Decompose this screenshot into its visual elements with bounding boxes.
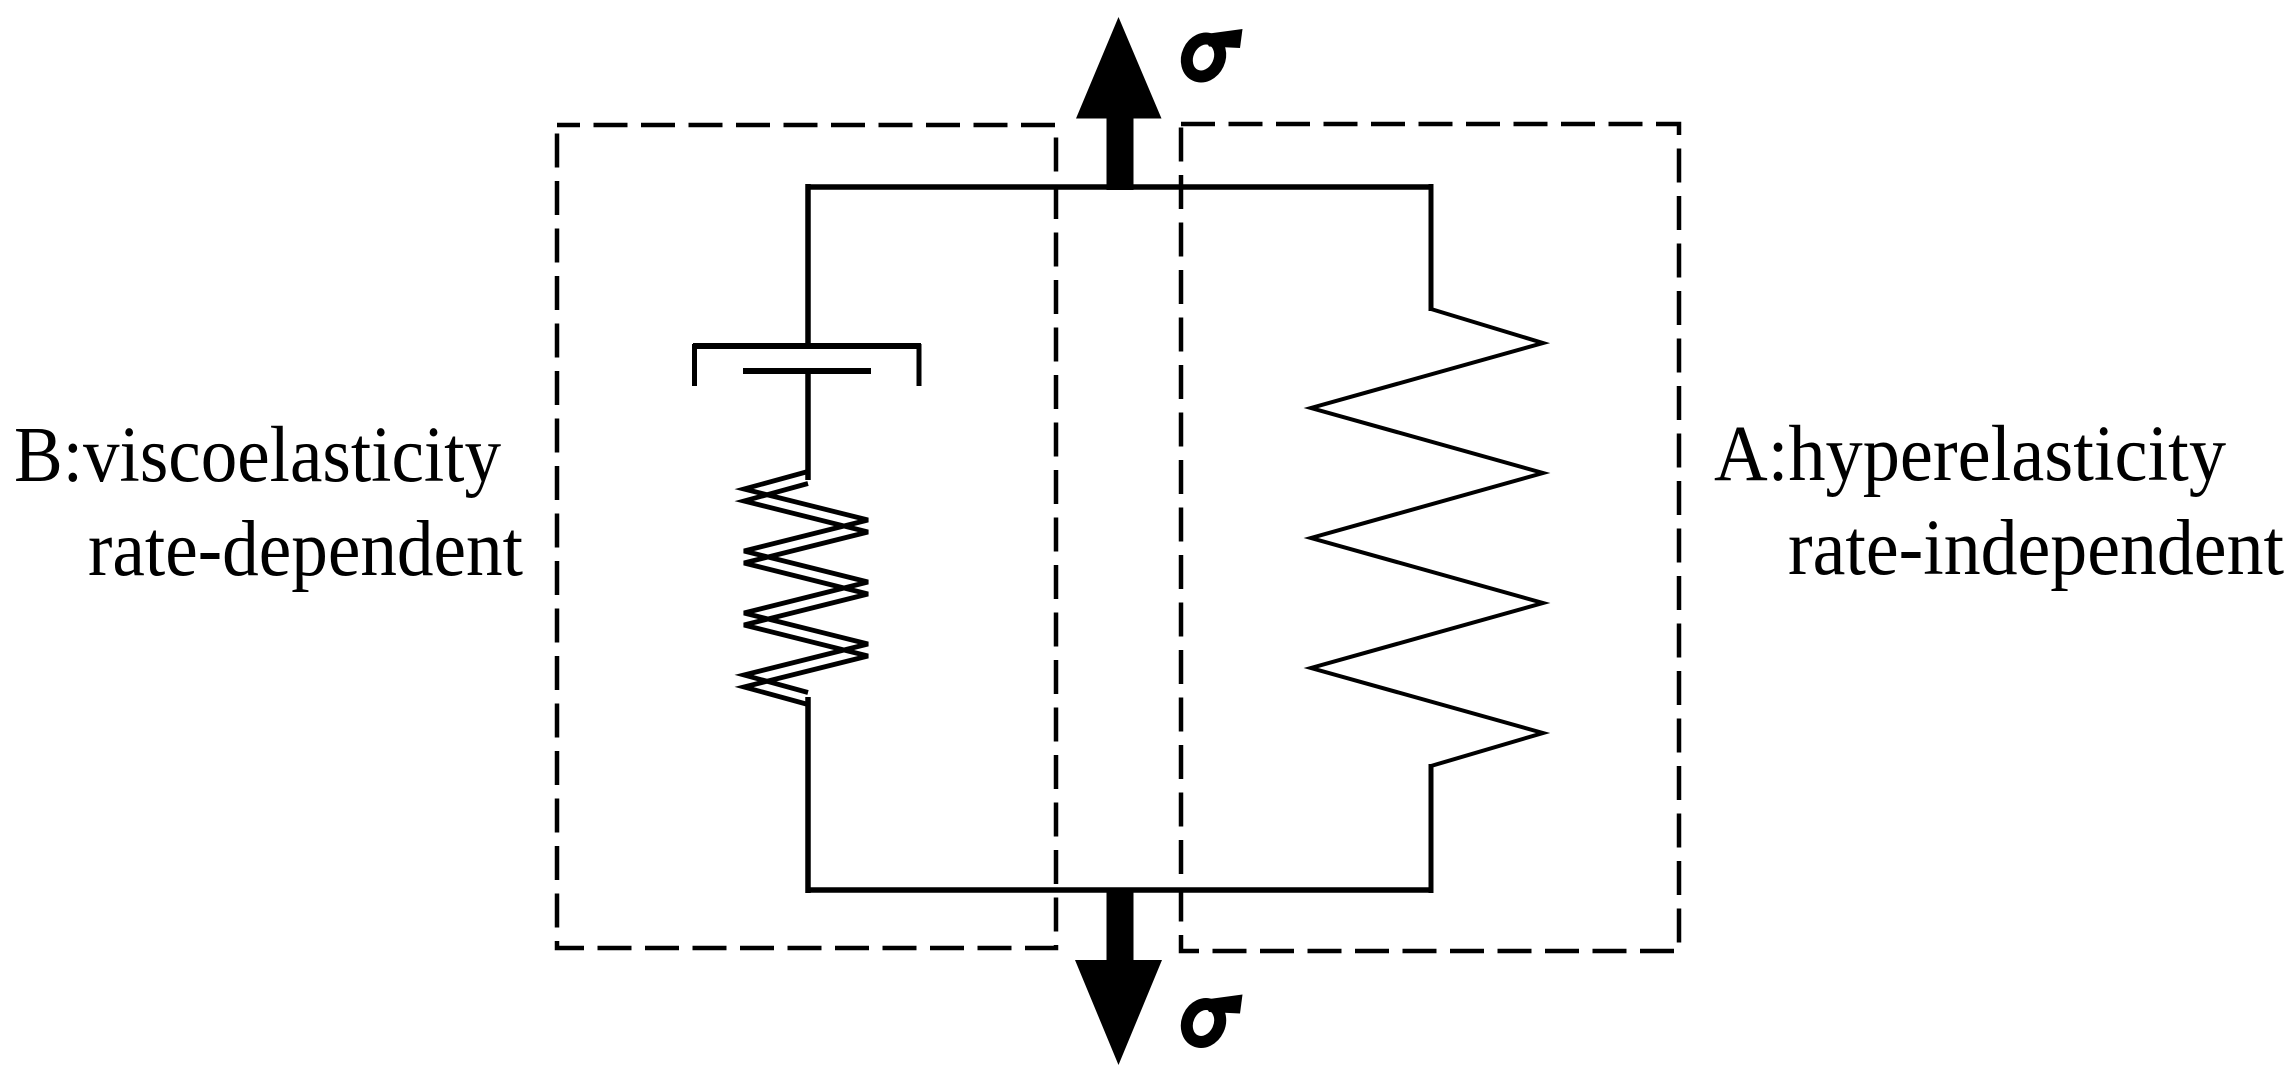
stress arrow down xyxy=(1075,888,1162,1065)
spring A zigzag xyxy=(1311,309,1543,766)
spring B coil lower line xyxy=(744,484,868,705)
spring B coil upper line xyxy=(744,472,868,693)
wire rod between dashpot and spring xyxy=(805,371,811,480)
dashpot B cylinder left wall xyxy=(692,344,697,386)
wire right branch bottom rod xyxy=(1429,764,1434,893)
wire top horizontal xyxy=(806,184,1434,190)
svg-text:rate-dependent: rate-dependent xyxy=(88,506,523,593)
dashed box A (hyperelastic branch) xyxy=(1181,124,1679,951)
wire left branch top rod xyxy=(805,184,811,348)
dashpot B piston plate xyxy=(743,368,871,374)
dashed box B (viscoelastic branch) xyxy=(557,125,1056,948)
svg-text:B:viscoelasticity: B:viscoelasticity xyxy=(14,412,501,499)
svg-text:A:hyperelasticity: A:hyperelasticity xyxy=(1714,411,2226,498)
wire right branch top rod xyxy=(1429,184,1434,311)
sigma label bottom xyxy=(1181,995,1243,1048)
sigma label top xyxy=(1181,29,1243,82)
svg-text:rate-independent: rate-independent xyxy=(1788,505,2284,592)
wire left branch bottom rod xyxy=(805,697,811,893)
dashpot B cylinder cap xyxy=(693,343,921,349)
stress arrow up xyxy=(1076,17,1162,190)
dashpot B cylinder right wall xyxy=(917,344,922,386)
wire bottom horizontal xyxy=(806,887,1434,893)
